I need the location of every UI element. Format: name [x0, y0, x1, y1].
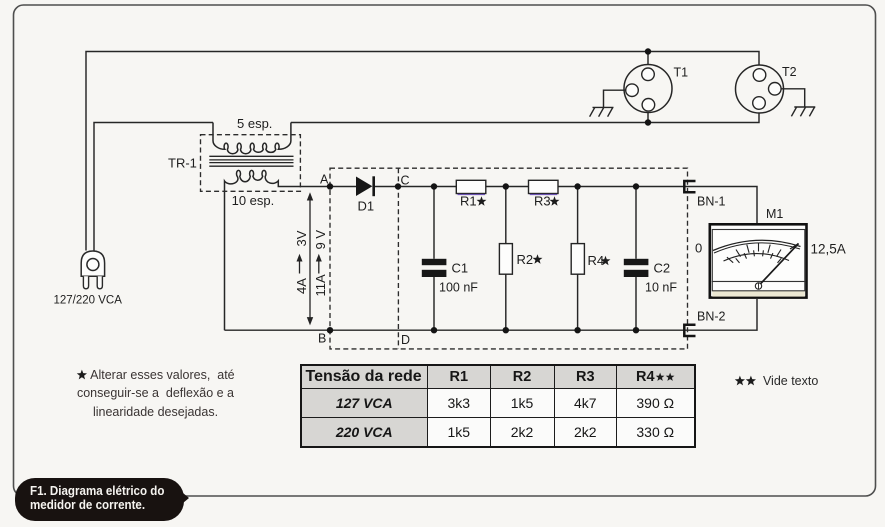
svg-text:R3: R3: [534, 194, 551, 209]
svg-text:10 esp.: 10 esp.: [232, 193, 275, 208]
svg-text:R1: R1: [460, 194, 477, 209]
svg-text:T1: T1: [674, 66, 689, 80]
svg-text:11A: 11A: [313, 274, 328, 296]
svg-text:A: A: [320, 173, 329, 187]
svg-text:C: C: [401, 174, 410, 188]
svg-text:12,5A: 12,5A: [811, 242, 846, 257]
svg-text:0: 0: [695, 241, 702, 256]
svg-text:M1: M1: [766, 207, 783, 221]
svg-text:T2: T2: [782, 65, 797, 79]
svg-text:127/220 VCA: 127/220 VCA: [54, 295, 123, 307]
svg-text:C1: C1: [452, 261, 469, 276]
svg-text:5 esp.: 5 esp.: [237, 116, 272, 131]
svg-text:B: B: [318, 332, 326, 346]
svg-text:TR-1: TR-1: [168, 156, 197, 171]
svg-text:R2: R2: [517, 252, 534, 267]
svg-text:3V: 3V: [294, 230, 309, 246]
svg-text:10 nF: 10 nF: [645, 281, 677, 295]
svg-text:9 V: 9 V: [313, 230, 328, 250]
svg-text:BN-1: BN-1: [697, 195, 726, 209]
svg-text:BN-2: BN-2: [697, 310, 726, 324]
svg-text:R4: R4: [588, 253, 605, 268]
svg-text:4A: 4A: [294, 278, 309, 294]
svg-text:100 nF: 100 nF: [439, 281, 478, 295]
svg-text:D: D: [401, 333, 410, 347]
svg-text:C2: C2: [654, 261, 671, 276]
svg-text:D1: D1: [358, 199, 375, 214]
